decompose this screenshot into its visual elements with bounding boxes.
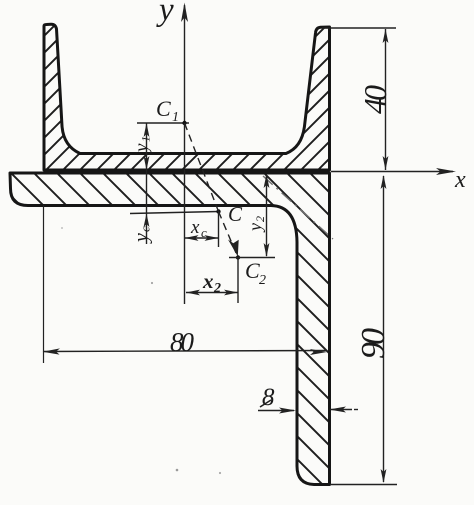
y2 dimension [266,175,268,256]
svg-text:y: y [156,0,174,28]
svg-text:x: x [190,217,200,238]
svg-text:8: 8 [262,384,275,411]
y axis [184,5,186,304]
centroid C (composite) with horizontal line and label [130,212,219,214]
svg-text:2: 2 [213,281,221,296]
x2 dimension [186,292,238,294]
hatching channel [40,0,334,465]
paper specks [176,469,179,472]
svg-text:80: 80 [170,327,195,357]
svg-text:y: y [132,143,153,154]
svg-text:C: C [245,258,260,283]
90 dim [330,484,397,486]
x axis [331,171,453,173]
svg-text:c: c [138,226,153,232]
dashed line through centroids C1-C-C2 with arrow [185,123,219,212]
channel section outline (40 tall) [44,24,330,170]
svg-text:x: x [202,269,214,293]
hatching angle [6,0,336,505]
svg-text:y: y [131,233,153,244]
svg-text:90: 90 [355,328,392,359]
faint dash-dot construction line at angle corner [263,176,333,239]
svg-text:2: 2 [253,216,267,222]
svg-text:y: y [245,223,265,233]
svg-text:40: 40 [357,85,393,114]
xc dimension [185,237,219,239]
angle section outline (80x90x8) [10,173,330,485]
svg-text:1: 1 [172,110,179,125]
centroid C1 (channel) with extension line and label [137,122,189,124]
svg-text:x: x [454,167,466,193]
svg-text:C: C [156,96,171,121]
8 dim [258,410,294,412]
svg-text:2: 2 [259,273,266,288]
80 dim [43,205,45,363]
svg-text:c: c [201,225,207,240]
centroid C2 (angle) with lines and label [236,255,240,259]
svg-text:C: C [228,202,243,226]
y1 / yc dimension line with arrows and labels [146,123,148,244]
svg-text:1: 1 [139,136,153,142]
40 dim [322,27,396,29]
